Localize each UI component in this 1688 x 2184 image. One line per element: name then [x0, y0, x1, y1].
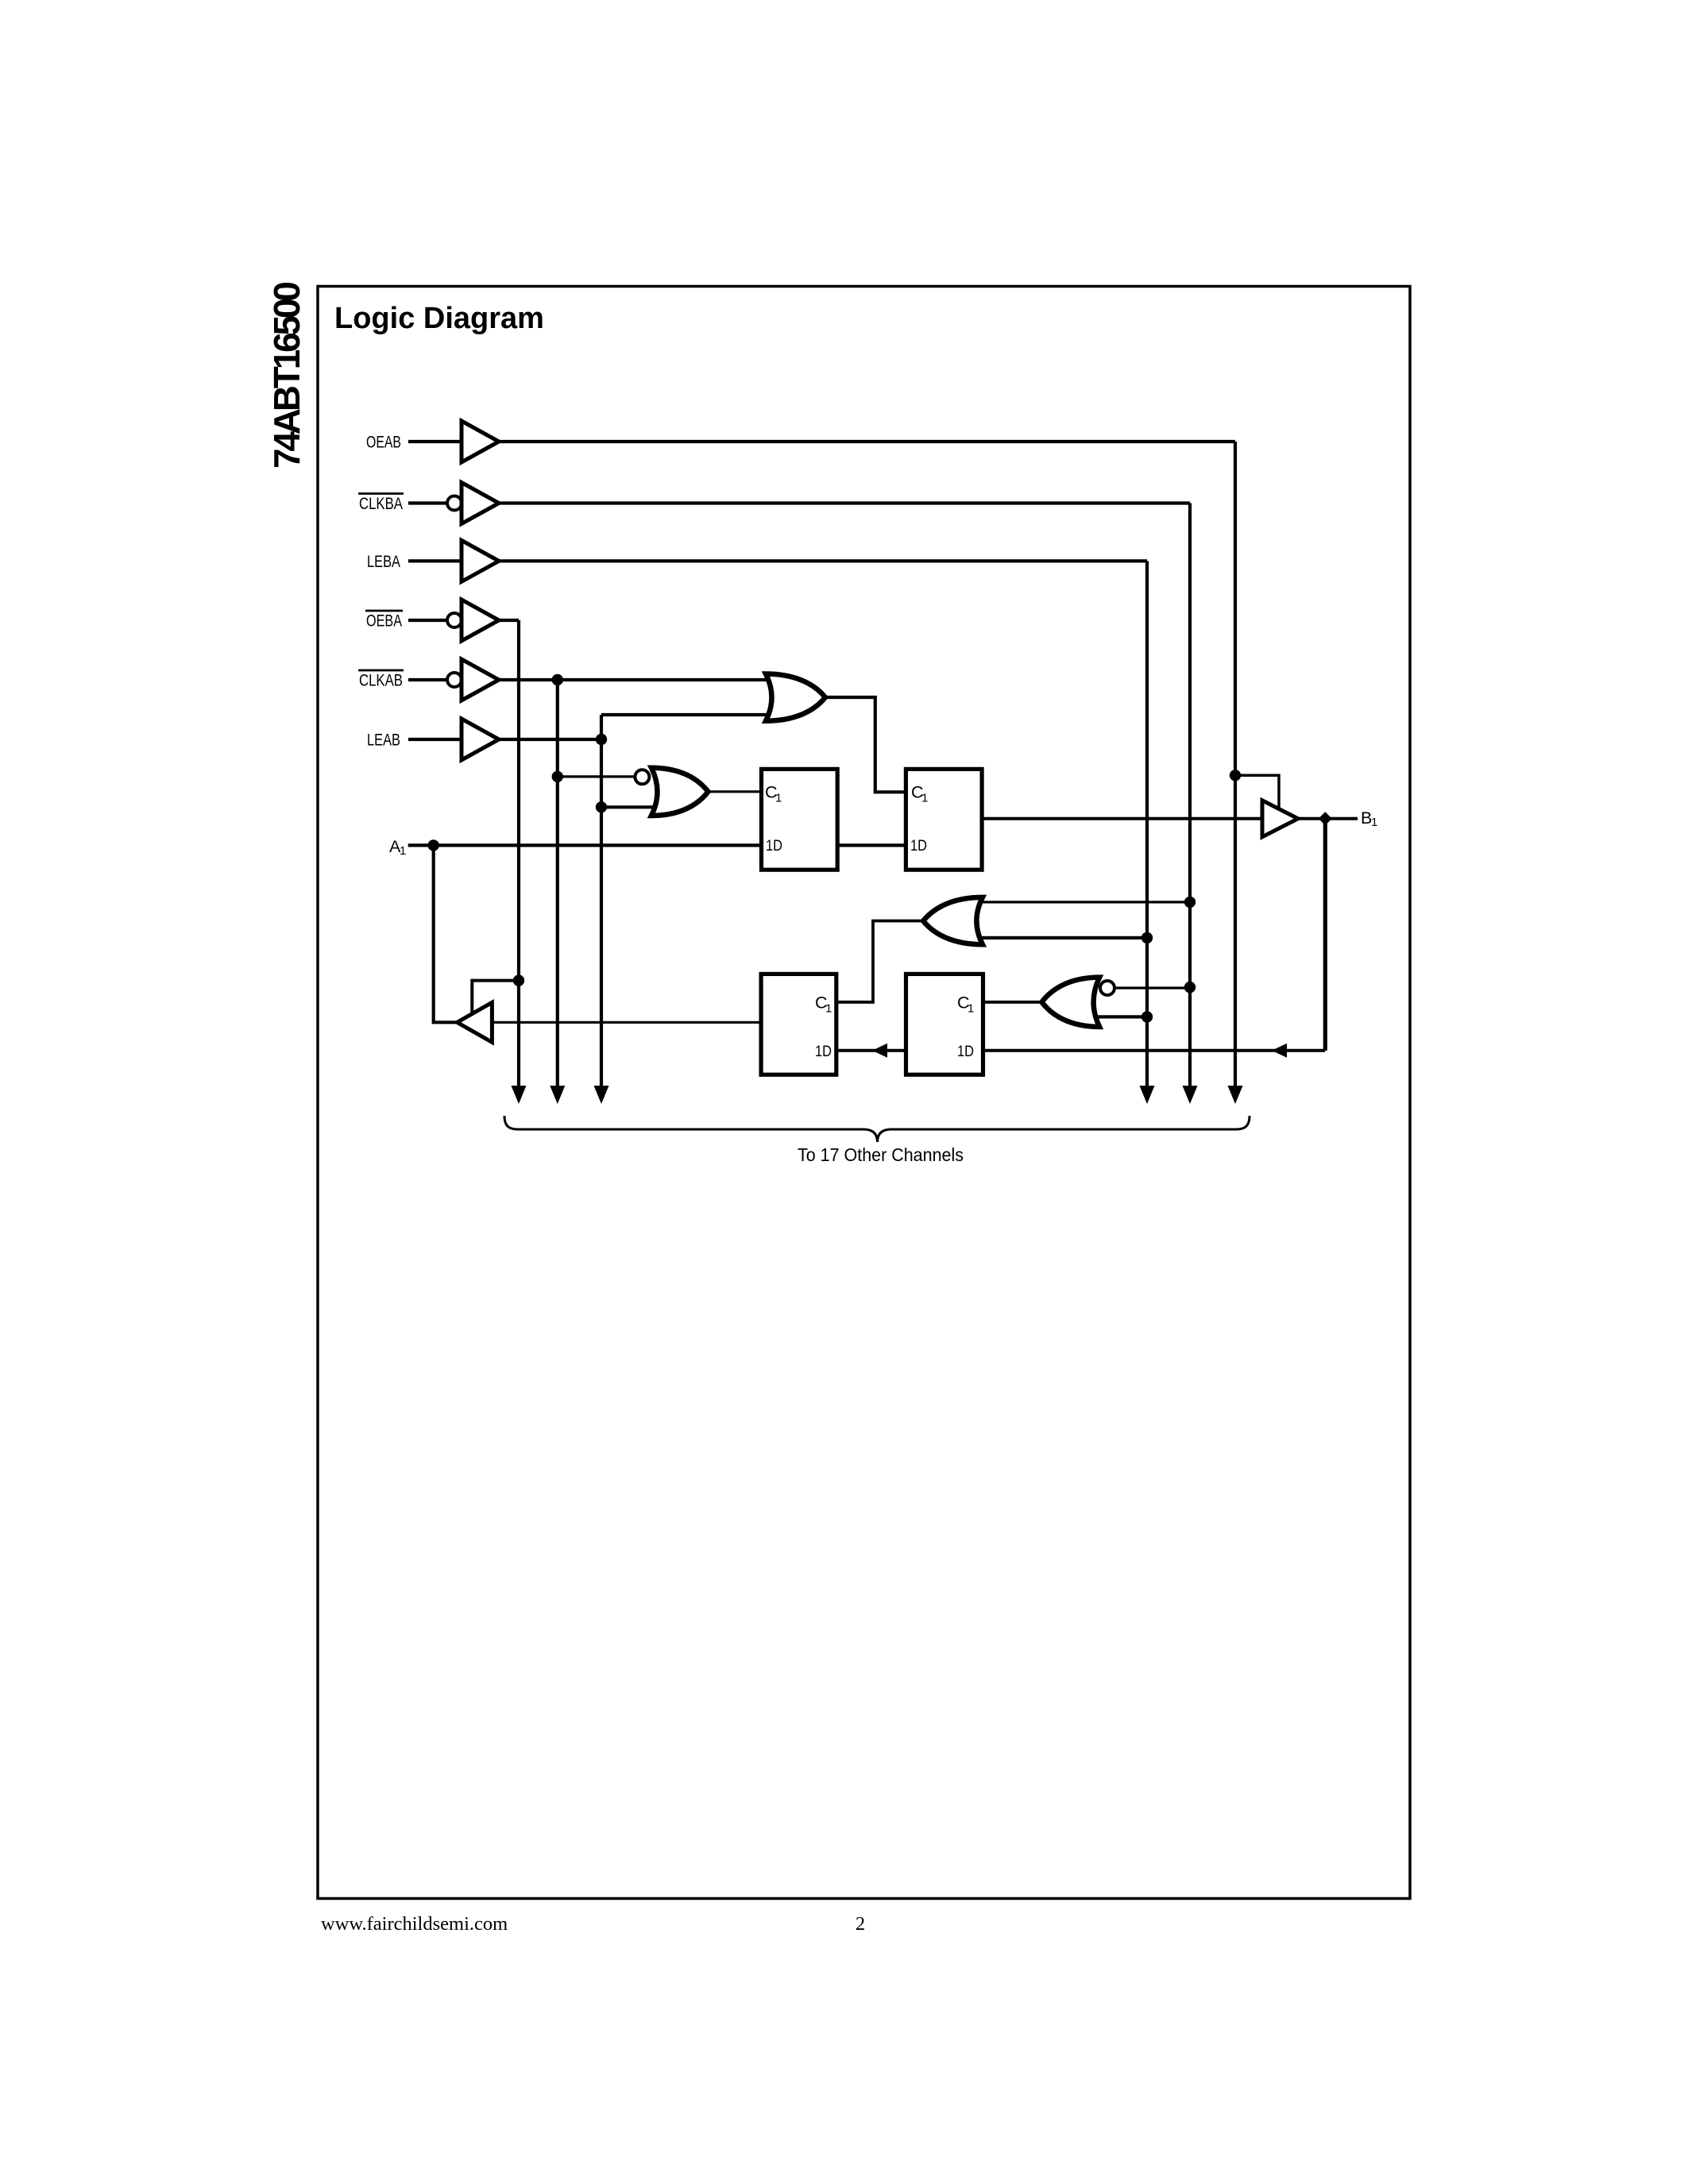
wire CLKBA input stub	[408, 501, 446, 504]
wire U6 enable	[472, 981, 519, 1015]
buffer U6	[457, 1002, 492, 1042]
CLKAB overline	[358, 669, 404, 672]
inverter bubble OEBA	[447, 613, 462, 627]
latch L1 box	[762, 769, 838, 870]
arrowhead to other channels (x=701.8)	[550, 1086, 565, 1104]
wire U4 top input	[973, 901, 1190, 903]
svg-text:CLKBA: CLKBA	[359, 494, 404, 513]
inverter bubble U5 input	[1100, 981, 1114, 995]
wire CLKAB vertical (x=701.8)	[556, 680, 559, 1086]
arrowhead to other channels (x=1444)	[1140, 1086, 1155, 1104]
wire OEAB output	[499, 440, 1235, 443]
junction U6 enable on OEBA vertical	[513, 974, 524, 986]
arrowhead to other channels (x=653)	[512, 1086, 527, 1104]
wire OEAB input stub	[408, 440, 462, 443]
buffer OEBA	[462, 600, 499, 641]
svg-text:www.fairchildsemi.com: www.fairchildsemi.com	[321, 1913, 508, 1935]
wire B1 feedback to latch L4 1D	[982, 1049, 1325, 1052]
svg-text:OEBA: OEBA	[366, 612, 402, 631]
wire LEAB to OR U1 lower input	[601, 713, 772, 716]
svg-text:1: 1	[1371, 816, 1377, 829]
arrowhead to other channels (x=757)	[594, 1086, 609, 1104]
wire OEBA output	[499, 619, 519, 622]
arrowhead to other channels (x=1498)	[1183, 1086, 1198, 1104]
wire U3 output to B1	[1298, 817, 1358, 820]
svg-text:1D: 1D	[766, 837, 782, 855]
svg-text:1: 1	[400, 844, 406, 858]
svg-text:2: 2	[856, 1913, 865, 1935]
buffer LEBA	[462, 540, 499, 581]
latch L3 box	[761, 974, 836, 1075]
latch L2 box	[906, 769, 982, 870]
junction CLKAB branch	[552, 674, 563, 685]
buffer LEAB	[462, 719, 499, 760]
wire L2 output to buffer U3	[981, 817, 1262, 820]
svg-text:74ABT16500: 74ABT16500	[266, 283, 307, 469]
junction U2 lower input on LEAB vertical	[596, 801, 607, 812]
wire OEBA input stub	[408, 619, 446, 622]
wire L3 output to buffer U6 input	[492, 1021, 762, 1024]
wire U4 output to latch L3 C1	[836, 921, 924, 1002]
wire LEBA vertical (x=1444)	[1145, 561, 1149, 1086]
arrowhead to other channels (x=1555)	[1228, 1086, 1243, 1104]
junction U5 bottom input on LEBA vertical	[1141, 1011, 1153, 1022]
wire CLKAB output	[499, 678, 772, 681]
or-gate U5 mirrored with inverted input	[1042, 978, 1100, 1027]
svg-text:1D: 1D	[815, 1043, 832, 1060]
junction node B1	[1319, 812, 1332, 825]
wire A1 input	[408, 843, 762, 847]
svg-text:1D: 1D	[910, 837, 927, 855]
page frame border	[318, 287, 1410, 1899]
junction A1 branch	[428, 839, 439, 851]
wire U5 output to latch L4 C1	[982, 1001, 1041, 1004]
wire L4 to latch L3 1D	[836, 1049, 907, 1052]
wire CLKAB input stub	[408, 678, 446, 681]
svg-text:1D: 1D	[957, 1043, 974, 1060]
CLKBA overline	[358, 492, 404, 495]
latch L4 box	[906, 974, 983, 1075]
buffer U3	[1262, 801, 1298, 837]
OEBA overline	[365, 610, 403, 612]
wire CLKBA output	[499, 501, 1190, 504]
buffer OEAB	[462, 421, 499, 462]
wire CLKBA vertical (x=1498)	[1188, 504, 1192, 1086]
junction U2 top input on CLKAB vertical	[552, 771, 563, 782]
wire B1 feedback vertical	[1323, 819, 1327, 1051]
or-gate U4 mirrored	[923, 897, 983, 944]
wire LEBA input stub	[408, 559, 462, 562]
svg-text:1: 1	[775, 792, 782, 805]
wire OEBA vertical (x=653)	[517, 620, 520, 1086]
svg-text:CLKAB: CLKAB	[359, 671, 403, 690]
junction U4 bottom input on LEBA vertical	[1141, 932, 1153, 943]
wire U2 output to latch L1 C1	[708, 790, 761, 793]
arrowhead into L4 1D	[1272, 1044, 1287, 1058]
or-gate U2 with inverted input	[651, 768, 708, 816]
wire L1 1D to L2 1D	[836, 843, 906, 847]
junction U5 top input on CLKBA vertical	[1184, 982, 1196, 993]
wire U1 output to latch L2 C1	[825, 697, 906, 792]
wire U3 enable	[1235, 775, 1279, 811]
inverter bubble CLKAB	[447, 673, 462, 687]
svg-text:1: 1	[968, 1002, 974, 1016]
wire LEAB input stub	[408, 738, 462, 741]
brace to 17 other channels	[504, 1116, 1250, 1142]
svg-text:LEAB: LEAB	[367, 731, 400, 750]
svg-text:OEAB: OEAB	[366, 433, 401, 452]
wire U4 bottom input	[973, 936, 1147, 940]
svg-text:LEBA: LEBA	[367, 552, 400, 571]
wire CLKAB vertical to U2 bubble input	[558, 775, 635, 778]
junction LEAB branch	[596, 734, 607, 745]
junction U3 enable on OEAB vertical	[1230, 770, 1241, 781]
wire OEAB vertical (x=1555)	[1234, 442, 1237, 1086]
or-gate U1	[766, 674, 825, 721]
svg-text:To 17 Other Channels: To 17 Other Channels	[798, 1144, 964, 1165]
inverter bubble U2 input	[635, 770, 649, 784]
svg-text:Logic Diagram: Logic Diagram	[334, 302, 544, 335]
wire U5 bottom input	[1088, 1015, 1147, 1018]
wire U6 output to A1 node	[434, 845, 458, 1022]
buffer CLKAB	[462, 659, 499, 700]
wire LEBA output	[499, 559, 1147, 562]
svg-text:1: 1	[825, 1002, 832, 1016]
arrowhead into L3 1D	[872, 1044, 887, 1058]
svg-text:1: 1	[921, 792, 928, 805]
wire LEAB vertical to U2 lower input	[601, 805, 666, 808]
wire LEAB vertical (x=757)	[600, 715, 603, 1086]
inverter bubble CLKBA	[447, 496, 462, 511]
junction U4 top input on CLKBA vertical	[1184, 897, 1196, 908]
buffer CLKBA	[462, 483, 499, 524]
wire U5 bubble input	[1114, 986, 1190, 989]
wire LEAB output	[499, 738, 601, 741]
